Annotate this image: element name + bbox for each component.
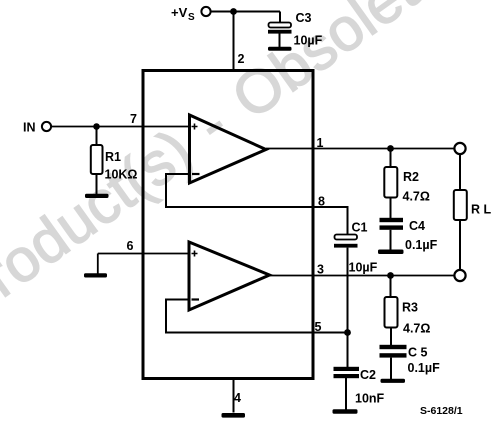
wire C1 to C2 (347, 248, 349, 367)
svg-text:C3: C3 (296, 11, 312, 25)
node pin5/C1/C2 junction (344, 329, 351, 336)
capacitor C2 (334, 367, 360, 410)
node IN/R1 junction (93, 123, 100, 130)
ground (C2) (333, 409, 358, 414)
ground (pin4) (222, 413, 246, 418)
capacitor C5 (380, 345, 407, 379)
svg-text:5: 5 (315, 320, 322, 334)
node Vs junction (230, 8, 237, 15)
svg-text:10µF: 10µF (294, 34, 323, 48)
svg-text:IN: IN (23, 121, 36, 135)
svg-text:10KΩ: 10KΩ (105, 168, 138, 182)
node pin3/R3 junction (387, 272, 394, 279)
svg-text:S: S (188, 12, 195, 23)
ground (R1) (85, 194, 109, 198)
svg-text:4.7Ω: 4.7Ω (403, 190, 430, 204)
svg-text:4.7Ω: 4.7Ω (403, 322, 430, 336)
capacitor C3 (268, 23, 292, 48)
ground (C3) (268, 47, 292, 51)
svg-text:+V: +V (171, 5, 188, 20)
resistor R2 (384, 149, 397, 219)
terminal OUT1 (454, 143, 465, 154)
node pin1/R2 junction (387, 145, 394, 152)
svg-text:7: 7 (130, 112, 137, 126)
svg-text:3: 3 (317, 263, 324, 277)
svg-text:C1: C1 (352, 221, 368, 235)
op-amp U1A (190, 115, 267, 183)
svg-text:R3: R3 (402, 301, 418, 315)
terminal OUT2 (454, 270, 465, 281)
wire pin4 ground stub (233, 378, 235, 413)
ground (C4) (378, 250, 404, 255)
IC box U1 (143, 71, 313, 379)
resistor R1 (91, 127, 103, 195)
wire pin6 ground drop (97, 254, 99, 274)
wire U1A feedback to pin 8 (166, 174, 348, 235)
wire C3 drop (279, 12, 281, 23)
svg-text:R1: R1 (105, 150, 121, 164)
svg-text:S-6128/1: S-6128/1 (420, 405, 463, 417)
svg-text:2: 2 (238, 52, 245, 66)
svg-text:C4: C4 (409, 219, 425, 233)
wire IN to op-amp (52, 126, 190, 128)
wire +Vs rail (211, 11, 281, 13)
resistor R3 (385, 276, 398, 346)
capacitor C4 (380, 218, 404, 250)
terminal +Vs (201, 7, 210, 16)
svg-text:R2: R2 (403, 170, 419, 184)
svg-text:0.1µF: 0.1µF (405, 238, 438, 252)
resistor RL (454, 154, 467, 270)
svg-text:1: 1 (317, 136, 324, 150)
wire pin6 input (98, 253, 189, 255)
wire pin2 drop (233, 12, 235, 71)
svg-text:6: 6 (127, 239, 134, 253)
wire pin1 output (266, 148, 455, 150)
svg-text:R L: R L (471, 203, 492, 217)
svg-text:8: 8 (318, 195, 325, 209)
ground (pin6) (84, 273, 107, 277)
svg-text:4: 4 (234, 391, 241, 405)
svg-text:10µF: 10µF (349, 261, 378, 275)
wire U1B feedback to pin 5 (166, 300, 348, 333)
svg-text:10nF: 10nF (355, 392, 385, 406)
wire pin3 output (270, 275, 456, 277)
svg-text:C2: C2 (360, 368, 376, 382)
svg-text:C 5: C 5 (408, 346, 428, 360)
terminal IN (42, 122, 51, 131)
svg-text:0.1µF: 0.1µF (408, 361, 441, 375)
ground (C5) (381, 379, 406, 383)
capacitor C1 (334, 235, 358, 248)
op-amp U1B (189, 242, 270, 310)
